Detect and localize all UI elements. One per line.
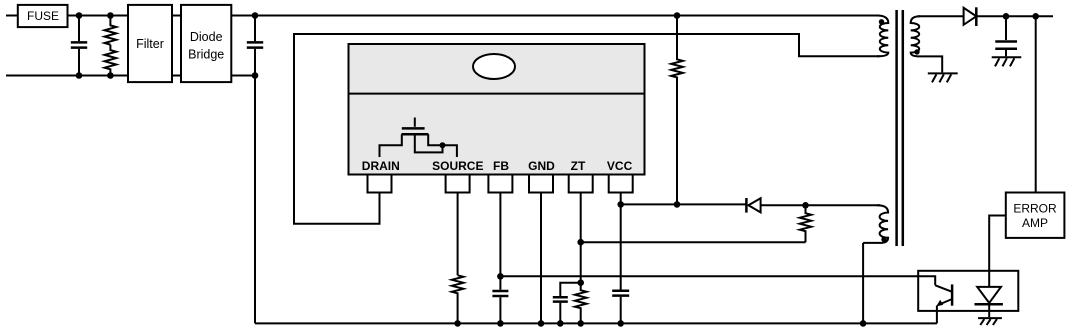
- pin 6 VCC: [609, 175, 633, 193]
- fuse F1: [18, 5, 68, 27]
- svg-text:ERROR: ERROR: [1013, 202, 1057, 216]
- wire error amp to LED: [989, 216, 1006, 287]
- wire AC input top stub: [6, 15, 18, 17]
- wire emitter to rail: [936, 306, 938, 324]
- capacitor C5: [612, 291, 629, 296]
- svg-text:SOURCE: SOURCE: [432, 159, 483, 173]
- wire SOURCE pin down: [457, 193, 459, 276]
- wire diode to aux winding: [761, 204, 880, 206]
- wire FB pin down: [499, 193, 501, 290]
- node: [76, 72, 83, 79]
- node: [577, 239, 584, 246]
- node: [454, 320, 461, 327]
- secondary phase dot: [914, 49, 919, 54]
- MOSFET Q1 drain lead: [380, 134, 402, 157]
- MOSFET Q1 bulk tie: [415, 134, 443, 152]
- wire VCC pin down: [620, 193, 622, 290]
- wire bottom ground rail: [255, 322, 937, 324]
- node: [557, 320, 564, 327]
- capacitor C2 bulk: [254, 16, 256, 42]
- resistor R3 startup: [671, 16, 683, 205]
- transformer core: [897, 10, 903, 246]
- aux phase dot: [881, 237, 886, 242]
- opto transistor emitter: [938, 299, 952, 305]
- diode bridge block: [181, 5, 231, 82]
- pin 3 FB: [488, 175, 512, 193]
- resistor R5: [452, 275, 464, 323]
- wire DC+ rail to transformer: [231, 15, 879, 17]
- error amp block: [1006, 193, 1065, 238]
- svg-text:DRAIN: DRAIN: [362, 159, 400, 173]
- node: [860, 320, 867, 327]
- ground G2: [992, 56, 1022, 58]
- wire top filter-bridge: [172, 15, 181, 17]
- wire rail to error amp: [1035, 16, 1037, 193]
- svg-text:FB: FB: [493, 159, 509, 173]
- wire ZT pin down: [580, 193, 582, 283]
- opto emitter arrowhead: [936, 300, 943, 307]
- primary phase dot: [879, 19, 884, 24]
- MOSFET Q1 channel bar: [402, 133, 429, 136]
- svg-text:GND: GND: [528, 159, 555, 173]
- transformer T1 aux winding: [863, 205, 888, 243]
- wire fuse to filter: [68, 15, 129, 17]
- capacitor C6 output: [1005, 16, 1007, 40]
- svg-text:Filter: Filter: [136, 37, 164, 51]
- node: [802, 202, 809, 209]
- node: [674, 12, 681, 19]
- wire output rail: [976, 15, 1053, 17]
- optocoupler U2 box: [918, 271, 1018, 311]
- svg-text:Bridge: Bridge: [188, 47, 224, 61]
- node: [577, 320, 584, 327]
- wire VCC rail to diode: [621, 203, 747, 205]
- wire drain loop to primary bottom: [294, 34, 880, 224]
- resistor R6: [575, 283, 587, 324]
- wire secondary top to diode: [918, 15, 964, 17]
- node: [497, 273, 504, 280]
- resistor R2: [105, 45, 117, 76]
- opto LED D3: [977, 287, 1001, 303]
- pin 2 SOURCE: [446, 175, 470, 193]
- wire bottom filter-bridge: [172, 75, 181, 77]
- resistor R1: [105, 16, 117, 45]
- pin 1 DRAIN: [368, 175, 392, 193]
- wire R4 to ZT: [581, 241, 806, 243]
- node: [107, 72, 114, 79]
- capacitor C4: [553, 297, 568, 301]
- node: [617, 201, 624, 208]
- wire bridge minus to bottom rail: [231, 76, 255, 324]
- filter block: [128, 5, 172, 82]
- node: [674, 201, 681, 208]
- ground G1: [928, 72, 958, 74]
- ground G3: [978, 317, 1002, 319]
- MOSFET Q1 gate bar: [402, 127, 425, 130]
- wire FB to optocoupler: [500, 276, 935, 285]
- svg-text:Diode: Diode: [190, 30, 223, 44]
- diode D2: [745, 198, 748, 213]
- node: [76, 12, 83, 19]
- pin 5 ZT: [569, 175, 593, 193]
- node: [440, 142, 446, 148]
- node: [252, 12, 259, 19]
- IC divider line: [349, 93, 645, 95]
- svg-text:ZT: ZT: [571, 159, 586, 173]
- transformer T1 primary winding: [877, 16, 888, 57]
- capacitor C1: [78, 16, 80, 42]
- node: [538, 320, 545, 327]
- node: [577, 279, 584, 286]
- node: [1003, 13, 1010, 20]
- resistor R4: [800, 205, 812, 242]
- opto transistor base bar: [951, 284, 954, 305]
- MOSFET Q1 source lead: [428, 134, 457, 157]
- wire secondary return: [920, 56, 942, 72]
- IC U1 body: [349, 44, 645, 175]
- wire AC input bottom: [6, 75, 128, 77]
- IC logo ellipse: [473, 54, 515, 79]
- pin 4 GND: [529, 175, 553, 193]
- wire ZT cap jog: [560, 283, 580, 296]
- MOSFET Q1 gate tick: [414, 118, 416, 127]
- svg-text:FUSE: FUSE: [27, 9, 59, 23]
- node: [497, 320, 504, 327]
- node: [617, 320, 624, 327]
- svg-text:VCC: VCC: [607, 159, 633, 173]
- wire aux return: [862, 243, 864, 324]
- wire GND pin down: [540, 193, 542, 324]
- node: [1032, 13, 1039, 20]
- node: [252, 72, 259, 79]
- transformer T1 secondary winding: [911, 16, 920, 56]
- capacitor C3: [492, 291, 508, 296]
- diode D1: [964, 8, 977, 25]
- opto transistor collector: [935, 285, 952, 292]
- svg-text:AMP: AMP: [1022, 216, 1048, 230]
- node: [107, 12, 114, 19]
